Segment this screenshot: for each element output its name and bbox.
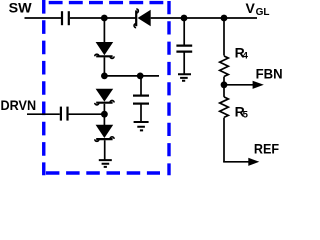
svg-text:SW: SW xyxy=(9,0,33,15)
junction node FBN xyxy=(221,81,228,88)
junction node at R4 xyxy=(221,15,228,22)
svg-text:DRVN: DRVN xyxy=(1,97,37,113)
wire D1 to mid junction xyxy=(103,57,105,76)
charge-pump dashed box (left border) xyxy=(42,0,45,175)
diode D-top triangle xyxy=(138,10,151,27)
wire D3 to ground xyxy=(104,140,106,160)
diode D2 (Schottky, pointing down) triangle xyxy=(96,89,114,102)
capacitor C-SW (series, left plate) xyxy=(61,11,63,25)
wire down to D1 xyxy=(103,18,105,43)
wire DRVN stub xyxy=(27,113,60,115)
wire C-DRVN to junction xyxy=(69,113,105,115)
wire D2 to DRVN junction xyxy=(103,104,105,114)
wire C-out to ground xyxy=(183,52,185,75)
wire REF arrow shaft xyxy=(223,161,249,163)
capacitor C-fly bottom plate xyxy=(133,102,149,104)
resistor R4 zigzag xyxy=(220,56,229,77)
resistor R5 zigzag xyxy=(220,97,229,118)
wire FBN arrow shaft xyxy=(224,84,253,86)
ground (under C-out) xyxy=(178,74,191,81)
wire down to output cap xyxy=(183,18,185,46)
junction node at top of diode string xyxy=(101,15,108,22)
FBN arrowhead xyxy=(253,81,264,89)
ground (under D3) xyxy=(99,160,112,167)
capacitor C-SW (series, right plate) xyxy=(68,11,70,25)
wire D-top to VGL rail xyxy=(151,17,257,19)
wire R5 down to REF corner xyxy=(223,118,225,162)
ground (under flying cap) xyxy=(134,122,149,130)
junction node DRVN xyxy=(101,111,108,118)
junction node at flying cap xyxy=(137,73,144,80)
wire R4 to FBN node xyxy=(223,77,225,97)
svg-text:GL: GL xyxy=(256,7,270,18)
diode D-top schottky hooks xyxy=(134,9,138,28)
diode D3 cathode bar xyxy=(96,138,112,140)
capacitor C-out bottom plate xyxy=(176,50,192,52)
junction node at output cap xyxy=(181,15,188,22)
wire down to flying cap xyxy=(140,76,142,96)
svg-text:REF: REF xyxy=(254,141,280,157)
wire mid junction to flying-cap stub xyxy=(104,75,159,77)
diode D3 (Schottky, pointing down) triangle xyxy=(96,125,114,138)
REF arrowhead xyxy=(248,158,259,166)
wire junction to D3 xyxy=(103,114,105,125)
capacitor C-out top plate xyxy=(176,44,192,46)
capacitor C-DRVN left plate xyxy=(60,107,62,121)
wire cap to ground xyxy=(140,104,142,122)
junction node mid (D1/D2) xyxy=(101,73,108,80)
charge-pump dashed box (right border) xyxy=(167,1,170,175)
wire junction to R4 xyxy=(223,18,225,56)
svg-text:4: 4 xyxy=(243,51,249,62)
wire cap to diode string / D-top cathode xyxy=(70,17,136,19)
capacitor C-DRVN right plate xyxy=(66,107,68,121)
charge-pump dashed box (top border) xyxy=(49,1,164,4)
diode D2 schottky hooks xyxy=(95,100,114,105)
svg-text:V: V xyxy=(246,0,256,16)
diode D3 schottky hooks xyxy=(95,137,114,142)
wire SW stub xyxy=(25,17,62,19)
diode D-top (Schottky, pointing left) cathode bar xyxy=(135,10,137,26)
svg-text:FBN: FBN xyxy=(256,65,283,81)
diode D1 (Schottky, pointing down) triangle xyxy=(96,42,114,55)
diode D1 cathode bar xyxy=(96,55,112,57)
capacitor C-fly top plate xyxy=(133,94,149,96)
diode D2 cathode bar xyxy=(96,102,112,104)
svg-text:5: 5 xyxy=(243,110,249,121)
charge-pump dashed box (bottom border) xyxy=(46,171,160,174)
diode D1 schottky hooks xyxy=(95,54,114,58)
